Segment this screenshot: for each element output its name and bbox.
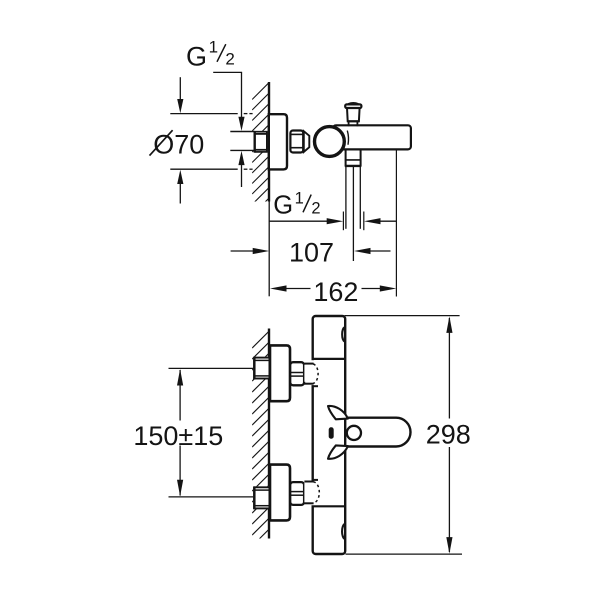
G1/2 top dimension line with arrows <box>241 72 243 117</box>
162 extension line <box>395 150 397 296</box>
svg-text:1: 1 <box>295 189 304 207</box>
lower escutcheon flange <box>270 465 290 521</box>
Ø70 dimension arrows <box>179 77 181 99</box>
diverter knob body <box>347 108 360 121</box>
G1/2 outlet dimension <box>269 220 330 222</box>
svg-text:298: 298 <box>426 420 471 450</box>
spout outlet adapter (top view) <box>345 149 347 166</box>
aerator slot <box>329 427 334 438</box>
wall hatching (front view) <box>252 330 270 557</box>
lower hex union nut <box>290 482 304 505</box>
upper union cone <box>304 365 313 382</box>
upper square wall nut <box>253 357 268 379</box>
svg-text:G: G <box>273 192 293 220</box>
162 dimension <box>270 285 287 291</box>
298 dimension line with arrows <box>448 318 450 419</box>
square wall nut (top view) <box>254 132 268 151</box>
body socket gaps (erase left edge) <box>311 360 315 385</box>
upper hex union nut <box>290 362 304 385</box>
escutcheon flange (top view) <box>269 114 287 169</box>
body socket lip lower <box>312 479 319 481</box>
bath spout (front view) <box>347 418 411 447</box>
150±15 dimension <box>179 370 181 421</box>
wall face line (front view) <box>268 329 270 539</box>
lower square wall nut <box>253 486 268 508</box>
lower union cone <box>304 483 313 503</box>
upper supply: pipe/extension line <box>169 367 254 369</box>
hose lines below outlet <box>345 167 347 229</box>
body silhouette arc <box>347 131 348 145</box>
union cone (top view) <box>304 131 310 152</box>
wall face line (top view) <box>268 82 270 202</box>
upper handle hook <box>328 406 348 419</box>
thermostat body column <box>313 316 346 554</box>
svg-text:2: 2 <box>225 50 234 69</box>
svg-text:O70: O70 <box>153 129 204 159</box>
107 dimension <box>231 250 257 252</box>
Ø70 extension lines <box>170 113 237 115</box>
upper hidden ball (dashed) <box>313 364 318 383</box>
298 dimension extension lines <box>345 315 460 317</box>
bottom notch semicircle <box>342 524 345 539</box>
diverter stem <box>348 121 350 126</box>
svg-text:G: G <box>186 41 207 71</box>
diverter knob cap <box>348 103 358 104</box>
upper escutcheon flange <box>270 345 290 401</box>
supply pipe stub (top view) <box>230 132 254 149</box>
wall hatching (top view) <box>252 82 270 226</box>
leader line for G 1/2 (top) <box>213 71 242 73</box>
top notch semicircle <box>342 327 345 341</box>
diverter knob (front view) <box>347 426 361 440</box>
lower hidden ball (dashed) <box>313 482 319 503</box>
body socket lip upper <box>312 385 319 387</box>
G1/2 outlet extension lines <box>342 212 344 231</box>
body section line lower <box>312 505 346 507</box>
lower handle hook <box>328 445 348 458</box>
svg-text:162: 162 <box>313 277 358 307</box>
svg-text:2: 2 <box>311 200 320 218</box>
svg-text:1: 1 <box>209 38 218 57</box>
faucet body (top view) <box>333 125 411 149</box>
svg-text:107: 107 <box>289 238 334 268</box>
body section line upper <box>312 358 346 360</box>
wall face extension line (top view) <box>268 202 270 297</box>
svg-text:150±15: 150±15 <box>133 421 223 451</box>
temperature knob circle (top view) <box>315 127 345 157</box>
hex union nut (top view) <box>290 131 303 153</box>
lower supply: pipe/extension line <box>169 496 254 498</box>
